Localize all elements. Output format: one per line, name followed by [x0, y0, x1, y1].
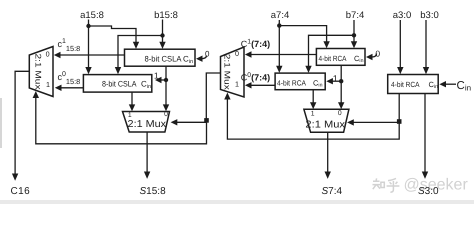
arrowhead c0 into VM1 input 1 [55, 85, 62, 91]
arrowhead select into HM1 right side [171, 119, 178, 125]
arrowhead select into VM2 bottom [224, 93, 230, 100]
arrowhead C16 output [12, 174, 18, 181]
svg-text:2:1 Mux: 2:1 Mux [305, 120, 345, 131]
arrowhead b7:4 into upper RCA [351, 41, 357, 48]
wire carry c1 15:8 to mux VM1 input 0 [59, 54, 125, 56]
svg-text:0: 0 [235, 49, 239, 58]
4-bit RCA U4 (Cin=1) box [275, 73, 325, 90]
svg-text:C1(7:4): C1(7:4) [241, 39, 270, 49]
wire mux VM2 output (C8) down to node SQ1 [206, 73, 220, 120]
arrowhead lower CSLA sum into HM1 [129, 104, 135, 111]
arrowhead b-branch into lower CSLA [115, 67, 121, 74]
arrowhead select into HM2 right side [347, 119, 354, 125]
svg-text:S7:4: S7:4 [322, 186, 343, 197]
svg-text:0: 0 [164, 111, 168, 118]
arrowhead sum S7:4 [325, 172, 331, 179]
arrowhead b15:8 into upper CSLA [159, 42, 165, 49]
arrowhead upper CSLA sum into HM1 [163, 104, 169, 111]
scan band bottom [0, 200, 474, 204]
wire a7:4 vertical [278, 20, 280, 67]
wire upper RCA sum to mux HM2 input 0 [340, 65, 342, 103]
svg-text:a15:8: a15:8 [80, 10, 104, 21]
wire a15:8 vertical [88, 20, 90, 69]
wire b3:0 vertical [425, 20, 427, 69]
arrowhead constant 1 into lower RCA Cin [326, 78, 333, 84]
svg-text:0: 0 [338, 110, 342, 117]
svg-text:1: 1 [46, 80, 50, 89]
arrowhead C1(7:4) into VM2 input 0 [245, 51, 252, 57]
scan smudge left edge [0, 98, 2, 148]
wire upper CSLA sum to mux HM1 input 0 [165, 66, 167, 105]
wire select return path stage 15:8 [36, 98, 207, 144]
svg-text:8-bit CSLA: 8-bit CSLA [145, 54, 183, 63]
svg-text:b7:4: b7:4 [346, 10, 365, 21]
arrowhead C0(7:4) into VM2 input 1 [245, 82, 252, 88]
svg-text:a7:4: a7:4 [271, 10, 290, 21]
svg-text:1: 1 [311, 111, 315, 118]
svg-text:1: 1 [235, 80, 239, 89]
svg-text:S15:8: S15:8 [140, 186, 167, 197]
wire mux VM1 output to C16 [15, 71, 29, 174]
arrowhead constant 1 into lower CSLA Cin [155, 77, 162, 83]
wire sum S3:0 from rightmost RCA [424, 94, 426, 173]
wire carry c0 15:8 to mux VM1 input 1 [60, 87, 83, 89]
arrowhead a3:0 into RCA [397, 67, 403, 74]
svg-text:4-bit RCA: 4-bit RCA [277, 78, 306, 87]
arrowhead a-branch into upper CSLA [133, 42, 139, 49]
svg-text:S3:0: S3:0 [418, 186, 439, 197]
arrowhead c1 into VM1 input 0 [54, 52, 61, 58]
arrowhead b-branch into lower RCA [305, 66, 311, 73]
mux VM1 2:1 Mux (carry select, vertical) [29, 47, 53, 97]
mux VM2 2:1 Mux (carry select, vertical) [221, 47, 245, 97]
arrowhead a7:4 into lower RCA [276, 66, 282, 73]
junction dot constant-1 tap on upper CSLA sum line [164, 78, 168, 82]
svg-text:2:1 Mux: 2:1 Mux [128, 119, 167, 130]
wire select return path stage 7:4 [227, 99, 399, 139]
watermark 知乎 @seeker [373, 178, 400, 192]
wire b15:8 branch to lower CSLA [118, 36, 163, 69]
arrowhead select into VM1 bottom [33, 91, 39, 98]
wire b15:8 vertical [162, 20, 164, 44]
4-bit RCA U5 (bits 3:0) box [388, 75, 439, 94]
arrowhead b3:0 into RCA [423, 67, 429, 74]
junction dot a7:4 [277, 23, 281, 27]
arrowhead constant 0 into upper CSLA Cin [196, 56, 203, 62]
junction dot b15:8 [160, 33, 164, 37]
arrowhead Cin into rightmost RCA [439, 81, 446, 87]
arrowhead upper RCA sum into HM2 [338, 102, 344, 109]
wire constant 0 to upper CSLA Cin [201, 56, 207, 59]
svg-text:C16: C16 [11, 186, 31, 197]
wire constant 0 to upper RCA Cin [372, 54, 377, 58]
wire rightmost RCA carry out down to node SQ2 [398, 94, 400, 120]
wire carry C1(7:4) to mux VM2 input 0 [251, 54, 317, 56]
svg-text:b15:8: b15:8 [154, 10, 178, 21]
svg-text:2:1 Mux: 2:1 Mux [34, 54, 43, 90]
junction square node SQ2 [397, 119, 402, 124]
wire b7:4 vertical [353, 20, 355, 42]
arrowhead a-branch into upper RCA [323, 41, 329, 48]
svg-text:4-bit RCA: 4-bit RCA [319, 54, 347, 63]
svg-text:4-bit RCA: 4-bit RCA [391, 80, 420, 89]
wire Cin input to rightmost RCA [445, 83, 456, 85]
wire a3:0 vertical [399, 20, 401, 69]
arrowhead constant 0 into upper RCA Cin [366, 54, 373, 60]
arrowhead lower RCA sum into HM2 [310, 102, 316, 109]
wire a15:8 branch to upper CSLA [89, 26, 137, 43]
wire constant 1 branch to lower CSLA Cin [160, 79, 166, 81]
arrowhead a15:8 into lower CSLA [85, 67, 91, 74]
svg-text:b3:0: b3:0 [420, 10, 439, 21]
wire carry C0(7:4) to mux VM2 input 1 [251, 84, 276, 86]
svg-text:1: 1 [154, 70, 159, 80]
svg-text:C0(7:4): C0(7:4) [241, 72, 270, 82]
svg-text:1: 1 [333, 73, 338, 83]
mux HM2 2:1 Mux (sum select, horizontal) [304, 109, 349, 132]
svg-text:2:1 Mux: 2:1 Mux [223, 54, 232, 90]
svg-text:1: 1 [128, 112, 132, 119]
junction dot b7:4 [352, 33, 356, 37]
8-bit CSLA U2 (Cin=1) box [83, 75, 151, 93]
wire lower CSLA sum to mux HM1 input 1 [131, 92, 133, 105]
svg-text:0: 0 [46, 50, 50, 59]
wire select of stage 7:4 from node SQ2 [353, 121, 399, 123]
wire constant 1 branch to lower RCA Cin [332, 80, 341, 82]
wire sum S15:8 from mux HM1 [146, 132, 148, 173]
wire b7:4 branch to lower RCA [309, 35, 355, 67]
junction dot a15:8 [86, 24, 90, 28]
wire a7:4 branch to upper RCA [279, 26, 326, 43]
junction square node SQ1 [204, 118, 209, 123]
svg-text:0: 0 [375, 48, 380, 58]
junction dot constant-1 tap on upper RCA sum line [339, 79, 343, 83]
svg-text:0: 0 [205, 50, 210, 59]
arrowhead sum S3:0 [422, 172, 428, 179]
mux HM1 2:1 Mux (sum select, horizontal) [123, 112, 170, 133]
wire sum S7:4 from mux HM2 [327, 132, 329, 172]
svg-text:8-bit CSLA: 8-bit CSLA [102, 79, 137, 88]
8-bit CSLA U1 (Cin=0) box [125, 49, 196, 66]
arrowhead sum S15:8 [144, 172, 150, 179]
wire select of stage 15:8 from node SQ1 [177, 121, 207, 123]
4-bit RCA U3 (Cin=0) box [316, 49, 365, 66]
wire lower RCA sum to mux HM2 input 1 [312, 90, 314, 104]
svg-text:a3:0: a3:0 [393, 10, 412, 21]
